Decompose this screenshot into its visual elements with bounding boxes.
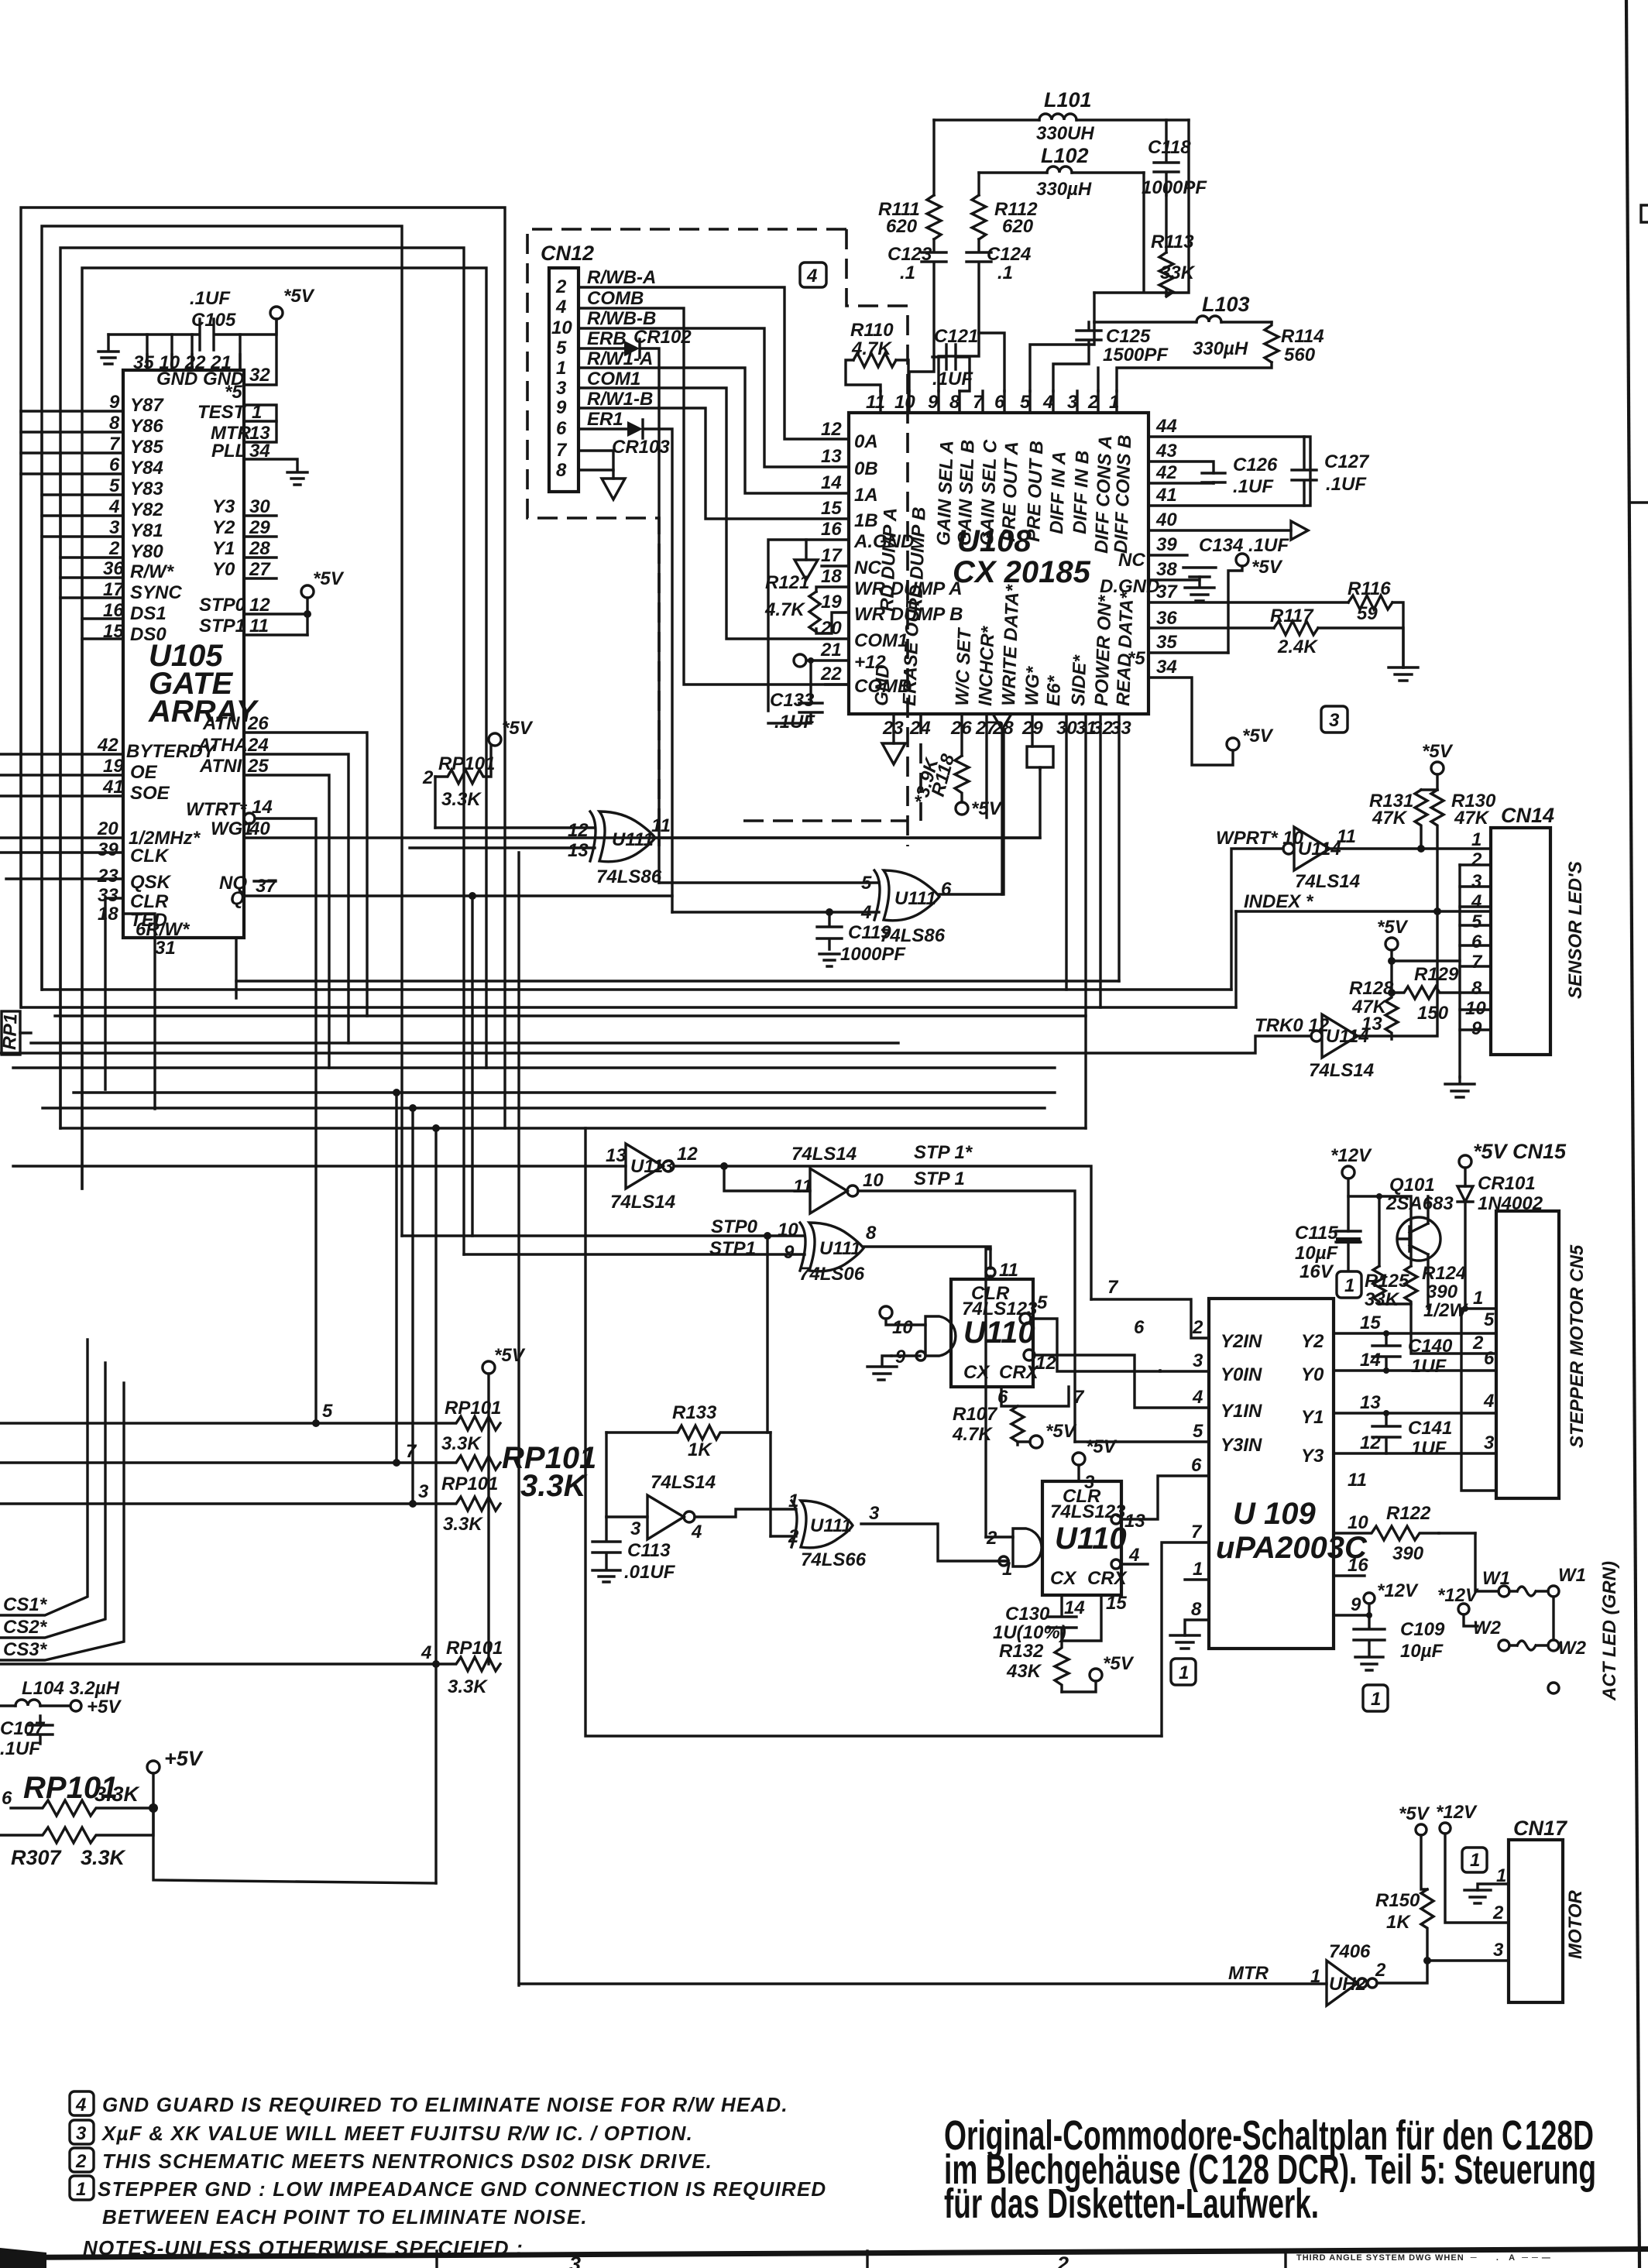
svg-text:3.3K: 3.3K xyxy=(81,1846,127,1869)
svg-text:4: 4 xyxy=(1192,1387,1203,1408)
wire vertical x756 to bottom bus xyxy=(585,1128,1162,1736)
svg-text:18: 18 xyxy=(98,904,118,925)
U108 pin17 NC stub xyxy=(822,564,849,567)
svg-text:15: 15 xyxy=(1360,1312,1381,1333)
svg-text:13: 13 xyxy=(1124,1511,1145,1532)
U105 left pins BYTERDY OE SOE xyxy=(0,735,217,804)
svg-text:10: 10 xyxy=(778,1220,798,1240)
svg-text:27: 27 xyxy=(249,559,271,580)
svg-text:28: 28 xyxy=(249,538,270,559)
svg-text:*12V: *12V xyxy=(1436,1802,1478,1823)
svg-text:4: 4 xyxy=(421,1642,431,1663)
CN17 pin3 row xyxy=(1427,1940,1509,1961)
svg-text:36: 36 xyxy=(1156,608,1177,629)
node +5V (pin35) xyxy=(1228,554,1283,653)
U108 bottom rotated labels xyxy=(871,583,1138,706)
wire U108 pin31 drop xyxy=(1084,714,1087,1128)
wire bus row i xyxy=(60,1124,1086,1664)
svg-text:OE: OE xyxy=(130,762,158,783)
wire pins 5,6 risers xyxy=(979,322,1094,391)
svg-text:3: 3 xyxy=(109,517,120,538)
svg-text:15: 15 xyxy=(1106,1593,1127,1614)
resistor R107 xyxy=(952,1387,1085,1448)
svg-text:7: 7 xyxy=(973,392,984,413)
svg-text:QSK: QSK xyxy=(130,872,172,893)
svg-text:SIDE*: SIDE* xyxy=(1068,654,1090,706)
svg-text:3: 3 xyxy=(630,1518,641,1539)
U108 left pin numbers 12-22 xyxy=(820,419,963,697)
wire R125/R124 to CN15 pin2 xyxy=(1379,1304,1496,1354)
svg-text:CX: CX xyxy=(1050,1568,1077,1589)
svg-text:74LS06: 74LS06 xyxy=(799,1264,865,1285)
svg-text:WR DUMP A: WR DUMP A xyxy=(854,578,963,599)
svg-text:Y2: Y2 xyxy=(212,517,235,538)
svg-text:74LS123: 74LS123 xyxy=(1050,1501,1126,1522)
svg-text:14: 14 xyxy=(1360,1350,1381,1371)
note box 1 (CN17) xyxy=(1462,1848,1487,1872)
svg-text:CR103: CR103 xyxy=(612,437,670,458)
svg-text:74LS14: 74LS14 xyxy=(791,1144,857,1165)
U108 pin27 stub xyxy=(985,714,987,818)
svg-text:11: 11 xyxy=(866,392,885,413)
capacitor C121 xyxy=(932,326,978,391)
node +5V (RP101 stack) xyxy=(482,1345,526,1664)
net STP1* xyxy=(914,1142,973,1163)
svg-text:R132: R132 xyxy=(999,1641,1044,1662)
svg-text:31: 31 xyxy=(155,938,176,959)
svg-text:3: 3 xyxy=(569,2253,581,2268)
svg-text:R124: R124 xyxy=(1422,1263,1466,1284)
svg-text:COMB: COMB xyxy=(587,288,644,309)
wire U108 pin32 drop xyxy=(1099,714,1101,1007)
svg-text:R125: R125 xyxy=(1365,1271,1409,1292)
resistor R128 xyxy=(1349,978,1398,1039)
svg-text:47K: 47K xyxy=(1454,808,1490,829)
svg-text:Y2IN: Y2IN xyxy=(1221,1331,1262,1352)
svg-text:UH2: UH2 xyxy=(1329,1974,1367,1995)
svg-text:CLR: CLR xyxy=(130,891,169,912)
U108 pin38 cap to ground xyxy=(1148,568,1216,601)
inductor L101 xyxy=(934,88,1189,144)
node +5V (R128) xyxy=(1377,917,1460,965)
svg-text:.1UF: .1UF xyxy=(190,288,231,309)
wire WPRT to mesh xyxy=(1231,849,1283,990)
svg-text:Y84: Y84 xyxy=(130,458,163,479)
svg-text:620: 620 xyxy=(886,216,918,237)
svg-text:24: 24 xyxy=(247,735,269,756)
resistor R131 xyxy=(1369,790,1427,853)
svg-text:WPRT* 10: WPRT* 10 xyxy=(1216,828,1304,849)
svg-text:.1UF: .1UF xyxy=(0,1738,41,1759)
resistor RP101-b (pin7) xyxy=(0,1441,500,1494)
svg-text:THIS SCHEMATIC MEETS NENTRONIC: THIS SCHEMATIC MEETS NENTRONICS DS02 DIS… xyxy=(102,2150,712,2173)
U105 left pins 1/2MHz CLK QSK CLR TED xyxy=(0,818,201,1109)
svg-text:C126: C126 xyxy=(1233,455,1278,475)
svg-text:NOTES-UNLESS OTHERWISE SPECIFI: NOTES-UNLESS OTHERWISE SPECIFIED : xyxy=(83,2236,524,2259)
U108 pin23 ground arrow xyxy=(882,714,905,764)
svg-text:E6*: E6* xyxy=(1043,674,1065,706)
note box 2 + note text xyxy=(70,2148,712,2173)
svg-text:5: 5 xyxy=(109,475,120,496)
svg-text:3: 3 xyxy=(1067,392,1078,413)
svg-text:1: 1 xyxy=(1344,1275,1354,1296)
svg-text:Y85: Y85 xyxy=(130,437,163,458)
svg-text:1K: 1K xyxy=(688,1439,712,1460)
svg-text:10µF: 10µF xyxy=(1295,1243,1339,1264)
label ACT LED (GRN) xyxy=(1599,1561,1620,1701)
svg-text:U111: U111 xyxy=(810,1515,852,1536)
svg-text:2: 2 xyxy=(1056,2253,1069,2268)
svg-text:+5V: +5V xyxy=(164,1747,204,1770)
resistor R130 xyxy=(1431,790,1496,915)
svg-text:37: 37 xyxy=(256,876,277,897)
svg-text:WRITE DATA*: WRITE DATA* xyxy=(998,583,1024,706)
U105 pin 24 ATHA xyxy=(197,735,348,1043)
svg-text:Y0IN: Y0IN xyxy=(1221,1364,1262,1385)
svg-text:2: 2 xyxy=(1192,1317,1203,1338)
svg-text:U111: U111 xyxy=(819,1238,861,1259)
wire bus row d xyxy=(55,1014,1086,1017)
svg-text:41: 41 xyxy=(1155,485,1177,506)
sheet bottom border xyxy=(0,2246,1648,2268)
wire U109 pin8 + ground xyxy=(1170,1620,1209,1649)
svg-text:1000PF: 1000PF xyxy=(1142,177,1207,198)
XOR gate U111c (STP) xyxy=(402,1216,991,1433)
svg-text:44: 44 xyxy=(1155,416,1177,437)
U109 pin11 row xyxy=(1332,1489,1334,1491)
svg-text:42: 42 xyxy=(1155,462,1177,483)
resistor R124 xyxy=(1405,1263,1468,1321)
capacitor C107 xyxy=(0,1716,53,1759)
svg-text:3: 3 xyxy=(869,1503,880,1524)
svg-text:R307: R307 xyxy=(11,1846,63,1869)
svg-text:11: 11 xyxy=(1337,826,1356,847)
svg-text:5: 5 xyxy=(556,338,567,359)
svg-text:74LS86: 74LS86 xyxy=(596,866,662,887)
resistor R133 xyxy=(606,1402,771,1536)
svg-text:2: 2 xyxy=(108,538,120,559)
svg-text:47K: 47K xyxy=(1372,808,1408,829)
U108 pin34 wire to +5V xyxy=(1148,678,1274,765)
svg-text:7: 7 xyxy=(1073,1387,1085,1408)
svg-text:L104 3.2µH: L104 3.2µH xyxy=(22,1678,120,1699)
svg-text:BYTERDY: BYTERDY xyxy=(126,741,217,762)
svg-text:*5V: *5V xyxy=(313,568,345,589)
svg-text:13: 13 xyxy=(568,840,589,861)
svg-text:74LS14: 74LS14 xyxy=(610,1192,675,1213)
svg-text:MTR: MTR xyxy=(1228,1963,1269,1984)
U110a outputs Q xyxy=(1020,1292,1160,1371)
wire bus row h xyxy=(43,1104,1045,1504)
svg-text:1: 1 xyxy=(1109,392,1119,413)
CN12 pin 2 R/WB-A xyxy=(555,267,849,439)
svg-text:GND GUARD IS REQUIRED TO ELIMI: GND GUARD IS REQUIRED TO ELIMINATE NOISE… xyxy=(102,2093,788,2116)
note box 4 xyxy=(800,262,826,287)
CN12 pin 5 ERB + diode CR102 xyxy=(556,327,692,883)
svg-text:10µF: 10µF xyxy=(1400,1641,1444,1662)
capacitor C124 xyxy=(939,239,1031,391)
svg-text:1UF: 1UF xyxy=(1411,1356,1447,1377)
svg-text:PRE OUT B: PRE OUT B xyxy=(1023,441,1048,543)
svg-text:39: 39 xyxy=(98,839,118,860)
svg-text:390: 390 xyxy=(1392,1543,1424,1564)
wire bus row c (INDEX) xyxy=(23,1006,1236,1008)
svg-text:15: 15 xyxy=(821,498,842,519)
title block xyxy=(1286,2251,1551,2268)
net STP1 xyxy=(914,1168,965,1189)
svg-text:Y1IN: Y1IN xyxy=(1221,1401,1262,1422)
capacitor C113 + ground xyxy=(592,1517,676,1583)
capacitor C115 xyxy=(1295,1223,1361,1282)
node +12V (Q101) xyxy=(1330,1145,1372,1231)
svg-text:A.GND: A.GND xyxy=(853,531,914,552)
U110a pin 11 CLR stub xyxy=(986,1260,1018,1281)
note box 1 (stepper gnd) xyxy=(1337,1271,1361,1298)
svg-text:Y1: Y1 xyxy=(212,538,235,559)
node +5V (U110b CLR) xyxy=(1073,1436,1118,1493)
svg-text:COM1: COM1 xyxy=(854,630,908,651)
svg-text:4: 4 xyxy=(75,2095,86,2115)
svg-text:U110: U110 xyxy=(963,1316,1035,1350)
resistor R112 xyxy=(972,173,1038,239)
capacitor C140 xyxy=(1372,1333,1453,1377)
wire filter right leg xyxy=(1094,120,1189,294)
XOR gate U111b (ERASE) xyxy=(659,729,1004,946)
svg-text:2: 2 xyxy=(1471,849,1482,870)
U108 top rotated pin labels xyxy=(877,434,1135,612)
svg-text:THIRD ANGLE SYSTEM DWG WHEN ─: THIRD ANGLE SYSTEM DWG WHEN ─ . A ─ ─ — xyxy=(1296,2253,1551,2263)
svg-text:.1: .1 xyxy=(997,262,1013,283)
svg-text:12: 12 xyxy=(821,419,842,440)
bus grid verticals (left of U105) xyxy=(21,411,82,1189)
svg-text:7: 7 xyxy=(1191,1522,1203,1542)
CN12 dashed guard box xyxy=(527,229,908,846)
resistor R111 xyxy=(878,120,941,239)
svg-text:INCHCR*: INCHCR* xyxy=(975,625,999,706)
svg-text:CLK: CLK xyxy=(130,846,170,866)
CN17 pin2 xyxy=(1492,1903,1504,1923)
svg-text:6: 6 xyxy=(1484,1348,1495,1369)
svg-text:BETWEEN EACH POINT TO ELIMINAT: BETWEEN EACH POINT TO ELIMINATE NOISE. xyxy=(102,2205,588,2229)
node +5V (RP101/R307) xyxy=(147,1747,436,1883)
wire bus loop B xyxy=(42,226,402,1236)
svg-text:Y82: Y82 xyxy=(130,499,163,520)
svg-text:SOE: SOE xyxy=(130,783,170,804)
wire bus loop A xyxy=(21,208,505,1128)
svg-text:ERASE OUT: ERASE OUT xyxy=(899,595,924,706)
U108 pin22 COMB external xyxy=(826,683,849,685)
CN12 pin 1 R/W1-A xyxy=(556,348,849,493)
resistor RP101-d (pin4) xyxy=(0,1638,503,1697)
diode CR101 xyxy=(1457,1173,1543,1312)
resistor R118 + +5V xyxy=(911,714,1003,819)
wire +12V rail to Q101/R124 xyxy=(1348,1193,1411,1266)
svg-text:18: 18 xyxy=(821,566,842,587)
label RP101 3.3K (array) xyxy=(502,1441,596,1503)
svg-text:74LS14: 74LS14 xyxy=(651,1472,716,1493)
wire U108 pin30 drop xyxy=(1065,714,1067,990)
node +12V (CN17) xyxy=(1436,1802,1509,1923)
resistor R121 xyxy=(764,572,849,633)
node +5V (R131/R130) xyxy=(1421,741,1454,790)
svg-text:L101: L101 xyxy=(1044,88,1092,112)
svg-text:4: 4 xyxy=(1042,392,1053,413)
svg-text:41: 41 xyxy=(102,777,124,798)
svg-text:39: 39 xyxy=(1156,534,1177,555)
CN12 pin 3 COM1 xyxy=(556,369,849,639)
resistor R116 + ground xyxy=(1148,578,1418,681)
svg-text:DS0: DS0 xyxy=(130,624,167,645)
svg-text:23: 23 xyxy=(97,866,118,887)
svg-text:CS2*: CS2* xyxy=(3,1617,48,1638)
svg-text:9: 9 xyxy=(109,392,120,413)
svg-text:1: 1 xyxy=(252,402,262,423)
svg-text:34: 34 xyxy=(1156,657,1177,678)
svg-text:Y80: Y80 xyxy=(130,541,163,562)
svg-text:STP1: STP1 xyxy=(709,1238,756,1259)
svg-text:29: 29 xyxy=(249,517,270,538)
svg-text:2: 2 xyxy=(1472,1333,1484,1354)
svg-text:CRX: CRX xyxy=(1087,1568,1128,1589)
U108 right pin stubs 44-34 xyxy=(1148,416,1310,678)
svg-text:CS3*: CS3* xyxy=(3,1639,48,1660)
svg-text:22: 22 xyxy=(820,664,842,685)
svg-text:R110: R110 xyxy=(850,320,894,341)
resistor RP101 (top, near U111) xyxy=(422,718,534,828)
node +5V (STP) xyxy=(301,568,345,635)
connector CN15 xyxy=(1496,1211,1588,1498)
net CS2* xyxy=(0,1363,105,1638)
U105 left pins Y87-Y80 bus rows xyxy=(21,392,164,562)
svg-text:U 109: U 109 xyxy=(1233,1497,1316,1531)
svg-text:XµF & XK VALUE WILL MEET FUJIT: XµF & XK VALUE WILL MEET FUJITSU R/W IC.… xyxy=(101,2122,693,2145)
svg-text:8: 8 xyxy=(109,413,120,434)
svg-text:R121: R121 xyxy=(765,572,809,593)
svg-text:3: 3 xyxy=(1329,710,1340,731)
resistor R114 xyxy=(1098,322,1324,391)
svg-text:2: 2 xyxy=(1492,1903,1504,1923)
svg-text:U113: U113 xyxy=(630,1156,674,1177)
svg-text:9: 9 xyxy=(784,1242,795,1263)
svg-text:2: 2 xyxy=(75,2151,87,2172)
U105 pin 37 NQ/Q xyxy=(219,873,672,1236)
resistor RP101-a (pin5) xyxy=(0,1398,501,1454)
svg-text:8: 8 xyxy=(866,1223,877,1244)
svg-text:C118: C118 xyxy=(1148,137,1191,158)
notes heading xyxy=(83,2236,524,2259)
CN12 pin 10 R/WB-B xyxy=(551,308,849,467)
svg-text:19: 19 xyxy=(821,592,842,612)
wire vertical x670 (MTR) xyxy=(517,853,520,1985)
svg-text:3.3K: 3.3K xyxy=(448,1676,488,1697)
U108 bottom pin numbers xyxy=(882,718,1131,739)
inverter U114a (WPRT) xyxy=(1216,826,1491,892)
svg-text:2.4K: 2.4K xyxy=(1277,636,1318,657)
svg-text:7406: 7406 xyxy=(1329,1941,1371,1962)
svg-text:35: 35 xyxy=(1156,632,1177,653)
svg-text:40: 40 xyxy=(1155,510,1177,530)
inverter U114b (TRK0) xyxy=(1255,911,1437,1081)
svg-text:Y1: Y1 xyxy=(1301,1407,1324,1428)
svg-text:R117: R117 xyxy=(1270,606,1314,626)
svg-text:R116: R116 xyxy=(1348,578,1391,599)
svg-text:C125: C125 xyxy=(1106,326,1151,347)
svg-text:9: 9 xyxy=(928,392,939,413)
svg-text:6: 6 xyxy=(1191,1455,1202,1476)
svg-text:C113: C113 xyxy=(627,1540,671,1561)
svg-text:20: 20 xyxy=(97,818,118,839)
svg-text:4: 4 xyxy=(1471,891,1481,912)
svg-text:R128: R128 xyxy=(1349,978,1394,999)
svg-text:1B: 1B xyxy=(854,510,878,531)
wire U108 pin33 drop xyxy=(1118,714,1120,981)
svg-text:W1: W1 xyxy=(1558,1565,1586,1586)
svg-text:3.3K: 3.3K xyxy=(441,789,482,810)
svg-text:W2: W2 xyxy=(1473,1618,1502,1638)
svg-text:1: 1 xyxy=(1193,1559,1203,1580)
svg-text:C115: C115 xyxy=(1295,1223,1338,1244)
inductor L103 xyxy=(1094,293,1272,359)
svg-text:17: 17 xyxy=(821,545,843,566)
svg-text:2: 2 xyxy=(1375,1960,1386,1981)
U108 pin16 A.GND external + ground arrow xyxy=(768,540,849,711)
svg-text:R/WB-B: R/WB-B xyxy=(587,308,656,329)
svg-text:CR101: CR101 xyxy=(1478,1173,1536,1194)
zone tick 4/3 xyxy=(437,2251,581,2268)
U109 pin16 stub xyxy=(1334,1574,1365,1577)
svg-text:16: 16 xyxy=(1348,1555,1368,1576)
AND gate (U110a trigger) xyxy=(867,1306,956,1380)
svg-text:CN17: CN17 xyxy=(1513,1817,1568,1840)
ground (C105) xyxy=(98,335,118,364)
svg-text:6: 6 xyxy=(997,1387,1008,1408)
svg-text:Y3: Y3 xyxy=(1301,1446,1324,1467)
CN17 pin1 + ground xyxy=(1464,1865,1509,1903)
svg-text:3.3K: 3.3K xyxy=(443,1514,483,1535)
U105 pin 26 ATN xyxy=(202,713,367,1016)
net CS3* xyxy=(0,1383,124,1660)
node +5V (U105) xyxy=(270,286,315,335)
svg-text:3: 3 xyxy=(76,2123,87,2144)
svg-text:16V: 16V xyxy=(1300,1261,1334,1282)
wire bus row b (WPRT) xyxy=(43,988,1231,990)
svg-text:C119: C119 xyxy=(848,922,891,943)
U105 pin 40 WG1 (wire to E6) xyxy=(211,769,1040,839)
svg-text:3: 3 xyxy=(1493,1940,1504,1961)
svg-text:8: 8 xyxy=(949,392,960,413)
svg-text:C124: C124 xyxy=(987,244,1031,265)
svg-text:U111: U111 xyxy=(612,829,654,850)
wire bus loop D xyxy=(82,268,486,1189)
U109 pin9 + +12V + C109 xyxy=(1334,1580,1419,1618)
svg-text:5: 5 xyxy=(322,1401,333,1422)
net INDEX* xyxy=(1236,891,1491,1007)
svg-text:2: 2 xyxy=(1087,392,1099,413)
svg-text:R/WB-A: R/WB-A xyxy=(587,267,656,288)
U105 pin 13 MTR xyxy=(211,421,276,444)
svg-text:CR102: CR102 xyxy=(633,327,692,348)
net CS1* xyxy=(0,1340,88,1615)
svg-text:U111: U111 xyxy=(894,888,936,909)
wire CN14 pin2..9 common xyxy=(1458,865,1461,1077)
svg-text:42: 42 xyxy=(97,735,118,756)
svg-text:9: 9 xyxy=(556,397,567,418)
note box 1 (C109) xyxy=(1363,1685,1388,1711)
svg-text:WTRT*: WTRT* xyxy=(186,799,248,820)
svg-text:R/W1-A: R/W1-A xyxy=(587,348,653,369)
svg-text:13: 13 xyxy=(606,1145,627,1166)
svg-text:STEPPER MOTOR CN5: STEPPER MOTOR CN5 xyxy=(1567,1244,1588,1448)
